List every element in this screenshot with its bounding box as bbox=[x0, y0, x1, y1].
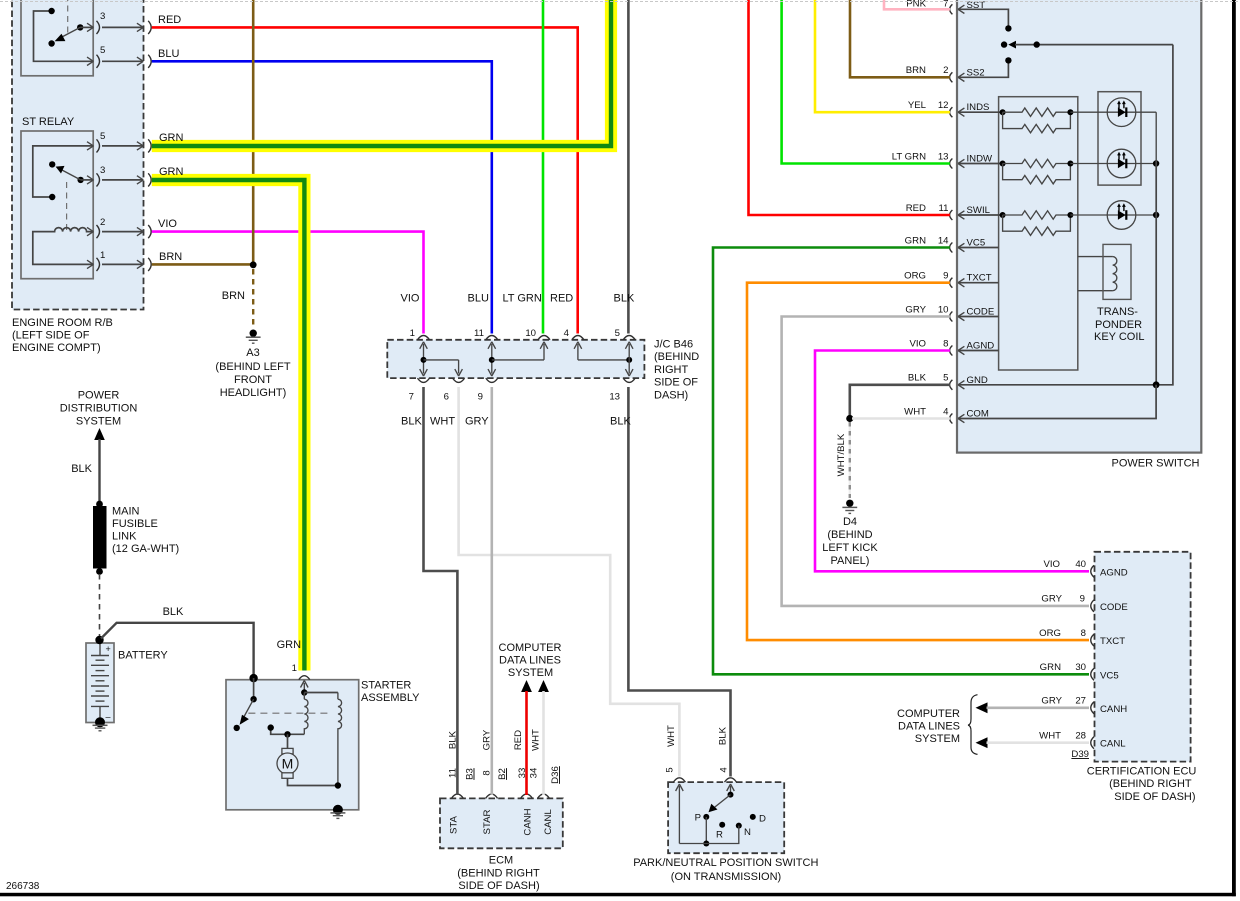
wire WHT/BLK dashed to ground D4 bbox=[849, 422, 851, 498]
pin AGND bbox=[950, 346, 953, 356]
svg-text:(12 GA-WHT): (12 GA-WHT) bbox=[112, 543, 179, 555]
wire GRY CANH bbox=[987, 706, 1090, 709]
park/neutral position switch dashed box bbox=[668, 782, 784, 853]
svg-text:GRN: GRN bbox=[905, 235, 926, 246]
svg-text:POWER: POWER bbox=[78, 389, 120, 401]
svg-text:3: 3 bbox=[100, 11, 105, 22]
svg-text:4: 4 bbox=[564, 328, 570, 339]
wire WHT COM bbox=[852, 417, 950, 420]
svg-text:BLK: BLK bbox=[614, 293, 635, 305]
ST relay pin 3 wire bbox=[81, 179, 94, 181]
COM internal lead bbox=[958, 385, 1156, 419]
svg-text:ORG: ORG bbox=[904, 271, 926, 282]
svg-text:GRY: GRY bbox=[465, 416, 489, 428]
svg-text:GRN: GRN bbox=[277, 639, 302, 651]
wire BLK J/C pin7 to ECM STA bbox=[424, 387, 458, 795]
ground starter bbox=[330, 813, 345, 819]
wire pin5 to R/B edge bbox=[102, 145, 143, 147]
J/C pin 11 connector bbox=[486, 336, 498, 340]
CODE internal lead bbox=[958, 316, 999, 318]
svg-text:BLK: BLK bbox=[908, 373, 927, 384]
svg-text:30: 30 bbox=[1075, 662, 1086, 673]
indicator LED box bbox=[1098, 92, 1141, 185]
wire node to motor bbox=[287, 734, 289, 748]
svg-text:(BEHIND: (BEHIND bbox=[654, 351, 699, 363]
svg-text:SIDE OF DASH): SIDE OF DASH) bbox=[1114, 791, 1195, 803]
ST relay coil bbox=[33, 228, 93, 265]
page bottom border bbox=[0, 893, 1236, 897]
wire to hold-in coil bbox=[304, 692, 338, 694]
ECM dashed box bbox=[440, 798, 563, 848]
node battery negative bbox=[95, 717, 105, 727]
ground A3 bbox=[250, 330, 257, 337]
node GND/COM junction bbox=[846, 415, 853, 422]
svg-text:PARK/NEUTRAL POSITION SWITCH: PARK/NEUTRAL POSITION SWITCH bbox=[633, 857, 818, 869]
svg-text:KEY COIL: KEY COIL bbox=[1094, 331, 1145, 343]
transponder key coil leads bbox=[1078, 256, 1113, 258]
svg-text:BATTERY: BATTERY bbox=[118, 650, 168, 662]
svg-text:STAR: STAR bbox=[482, 809, 493, 834]
LED SWIL bbox=[1070, 214, 1156, 216]
PNP contact P bbox=[703, 814, 709, 820]
svg-text:BLK: BLK bbox=[163, 606, 184, 618]
svg-text:9: 9 bbox=[478, 392, 483, 403]
svg-text:12: 12 bbox=[938, 100, 949, 111]
arrow to power distribution system bbox=[94, 428, 105, 440]
wire pin2 to R/B edge bbox=[102, 231, 143, 233]
svg-text:M: M bbox=[282, 756, 294, 772]
J/C pin 4 connector bbox=[572, 336, 584, 340]
pin VC5 bbox=[950, 243, 953, 253]
svg-text:(BEHIND LEFT: (BEHIND LEFT bbox=[215, 361, 290, 373]
svg-text:VIO: VIO bbox=[909, 338, 926, 349]
J/C pin 9 connector bbox=[486, 378, 498, 382]
svg-text:STARTER: STARTER bbox=[361, 680, 411, 692]
svg-text:FRONT: FRONT bbox=[234, 374, 272, 386]
svg-text:RED: RED bbox=[550, 293, 573, 305]
GND internal lead bbox=[958, 384, 1156, 386]
svg-text:CANH: CANH bbox=[1100, 704, 1127, 715]
svg-text:BLK: BLK bbox=[610, 416, 631, 428]
node battery positive bbox=[95, 636, 103, 644]
svg-text:P: P bbox=[695, 813, 701, 824]
starter mechanical link dashed bbox=[248, 712, 332, 714]
svg-text:1: 1 bbox=[292, 663, 297, 674]
ST relay mechanical link dashed bbox=[66, 182, 68, 230]
svg-text:AGND: AGND bbox=[1100, 567, 1128, 578]
wire BLK to J/C pin5 bbox=[627, 0, 630, 334]
svg-text:DATA LINES: DATA LINES bbox=[499, 655, 561, 667]
svg-text:ASSEMBLY: ASSEMBLY bbox=[361, 692, 420, 704]
wire pin5 to R/B edge bbox=[102, 60, 143, 62]
pull-in coil bbox=[304, 693, 308, 735]
svg-text:(BEHIND RIGHT: (BEHIND RIGHT bbox=[457, 867, 540, 879]
svg-text:GRN: GRN bbox=[159, 166, 184, 178]
svg-text:WHT: WHT bbox=[531, 729, 542, 751]
J/C pin 5 connector bbox=[623, 336, 635, 340]
wire GRN relay pin5 highlighted bbox=[152, 0, 611, 146]
arrow to computer data lines (CANL) bbox=[538, 680, 549, 692]
svg-text:5: 5 bbox=[943, 373, 948, 384]
svg-text:9: 9 bbox=[943, 271, 948, 282]
relay1 pin 3 connector bbox=[87, 23, 93, 31]
svg-text:D36: D36 bbox=[550, 766, 561, 784]
wire WHT J/C pin6 to PNP pin5 bbox=[459, 387, 680, 777]
svg-text:(LEFT SIDE OF: (LEFT SIDE OF bbox=[12, 330, 90, 342]
svg-text:10: 10 bbox=[525, 328, 536, 339]
wire GRN relay pin3 to starter highlighted bbox=[152, 180, 305, 671]
svg-text:TRANS-: TRANS- bbox=[1097, 306, 1138, 318]
svg-text:CANH: CANH bbox=[523, 808, 534, 835]
svg-text:40: 40 bbox=[1075, 559, 1086, 570]
svg-text:D: D bbox=[759, 814, 766, 825]
wire BLU relay pin5 to J/C pin11 bbox=[152, 61, 492, 333]
svg-text:13: 13 bbox=[938, 151, 949, 162]
svg-text:B2: B2 bbox=[497, 768, 508, 780]
transponder key coil bbox=[1113, 257, 1117, 291]
arrow to computer data lines (CANL) bbox=[976, 737, 988, 748]
svg-text:WHT/BLK: WHT/BLK bbox=[836, 433, 847, 476]
svg-text:VIO: VIO bbox=[158, 218, 177, 230]
INDW resistor pair bbox=[958, 163, 1003, 165]
svg-text:8: 8 bbox=[1081, 628, 1086, 639]
wire GRY J/C pin9 to ECM STAR bbox=[490, 387, 493, 795]
svg-text:LEFT KICK: LEFT KICK bbox=[822, 542, 878, 554]
svg-text:GRY: GRY bbox=[1041, 594, 1062, 605]
J/C bus 4-5-13 bbox=[577, 344, 579, 360]
cert pin 27 CANH connector bbox=[1091, 702, 1094, 714]
svg-text:1: 1 bbox=[100, 250, 105, 261]
svg-text:BRN: BRN bbox=[159, 251, 182, 263]
svg-text:MAIN: MAIN bbox=[112, 505, 140, 517]
ground battery bbox=[93, 725, 108, 731]
svg-text:WHT: WHT bbox=[904, 406, 926, 417]
svg-text:3: 3 bbox=[100, 165, 105, 176]
svg-text:ECM: ECM bbox=[489, 854, 513, 866]
svg-text:4: 4 bbox=[943, 406, 949, 417]
ST relay fixed contact bbox=[49, 161, 55, 167]
wire VIO AGND to certification ECU bbox=[815, 351, 1089, 572]
svg-text:GRY: GRY bbox=[905, 304, 926, 315]
J/C pin 6 connector bbox=[453, 378, 465, 382]
wire ORG TXCT to certification ECU bbox=[747, 283, 1089, 640]
node BRN junction bbox=[250, 261, 257, 268]
svg-text:A3: A3 bbox=[246, 347, 259, 359]
svg-text:ENGINE COMPT): ENGINE COMPT) bbox=[12, 342, 101, 354]
LED return vertical bbox=[1155, 160, 1157, 385]
pin SST bbox=[950, 4, 953, 14]
svg-text:DASH): DASH) bbox=[654, 390, 688, 402]
PNP contact R bbox=[719, 822, 725, 828]
svg-text:SYSTEM: SYSTEM bbox=[915, 733, 960, 745]
J/C pin 1 connector bbox=[418, 336, 430, 340]
wire pull-in coil bottom to motor node bbox=[271, 728, 305, 735]
svg-text:5: 5 bbox=[100, 45, 105, 56]
svg-text:14: 14 bbox=[938, 235, 949, 246]
node fusible link top bbox=[96, 501, 103, 508]
VC5 internal lead bbox=[958, 247, 999, 249]
wire LT GRN to J/C pin10 bbox=[542, 0, 545, 334]
svg-text:RED: RED bbox=[513, 730, 524, 750]
node solenoid top bbox=[301, 689, 307, 695]
svg-text:RIGHT: RIGHT bbox=[654, 364, 689, 376]
power switch box bbox=[957, 0, 1201, 453]
svg-text:POWER SWITCH: POWER SWITCH bbox=[1112, 457, 1200, 469]
ST relay box bbox=[21, 131, 93, 279]
svg-text:D39: D39 bbox=[1071, 749, 1089, 760]
node starter battery input bbox=[249, 674, 257, 682]
ground D4 bbox=[846, 500, 853, 507]
AGND internal lead bbox=[958, 350, 999, 352]
svg-text:STA: STA bbox=[449, 815, 460, 834]
svg-text:BLU: BLU bbox=[468, 293, 489, 305]
svg-text:BLK: BLK bbox=[71, 463, 92, 475]
ECM pin CANL connector bbox=[538, 794, 550, 798]
wire LT GRN to INDW bbox=[782, 0, 950, 164]
PNP bottom bus bbox=[679, 826, 738, 844]
wire pin3 to R/B edge bbox=[102, 179, 143, 181]
page right border bbox=[1232, 0, 1236, 896]
cert pin 40 AGND connector bbox=[1091, 565, 1094, 577]
svg-text:2: 2 bbox=[100, 217, 105, 228]
svg-text:PONDER: PONDER bbox=[1095, 319, 1142, 331]
pin CODE bbox=[950, 312, 953, 322]
ST relay switch arm bbox=[77, 177, 83, 183]
arrow to computer data lines (CANH) bbox=[521, 680, 532, 692]
svg-text:8: 8 bbox=[943, 338, 948, 349]
wire RED CANH bbox=[525, 691, 528, 795]
svg-text:4: 4 bbox=[719, 767, 730, 773]
svg-text:D4: D4 bbox=[843, 516, 857, 528]
svg-text:GRY: GRY bbox=[1041, 696, 1062, 707]
starter switch open contact bbox=[234, 725, 240, 731]
svg-text:–: – bbox=[106, 712, 111, 722]
svg-text:CODE: CODE bbox=[1100, 602, 1128, 613]
LED INDS bbox=[1070, 111, 1156, 113]
switch common return wire bbox=[1156, 45, 1173, 385]
wire BLK J/C pin13 to PNP pin4 bbox=[628, 387, 730, 777]
wire WHT CANL bbox=[987, 741, 1090, 744]
wire motor to ground node bbox=[288, 778, 338, 785]
battery internal plates bbox=[91, 643, 109, 722]
relay1 pin 3 wire bbox=[80, 26, 93, 28]
svg-text:VIO: VIO bbox=[1043, 559, 1060, 570]
ST relay pin 5 connector bbox=[87, 142, 93, 150]
wire RED to SWIL bbox=[749, 0, 951, 215]
svg-text:(BEHIND RIGHT: (BEHIND RIGHT bbox=[1109, 778, 1192, 790]
svg-text:RED: RED bbox=[906, 203, 926, 214]
SS2 contact wire bbox=[958, 64, 1008, 78]
svg-text:J/C B46: J/C B46 bbox=[654, 338, 693, 350]
svg-text:FUSIBLE: FUSIBLE bbox=[112, 518, 158, 530]
svg-text:LT GRN: LT GRN bbox=[503, 293, 542, 305]
wire BLK GND bbox=[850, 385, 950, 416]
hold-in coil bbox=[338, 693, 342, 786]
starter switch arm bbox=[243, 699, 254, 718]
PNP pin 4 arrow bbox=[730, 786, 732, 795]
dashed wire fusible link to battery bbox=[99, 574, 101, 637]
relay1 switch arm bbox=[77, 24, 83, 30]
PNP pin 4 connector bbox=[725, 778, 737, 782]
pin COM bbox=[950, 414, 953, 424]
svg-text:PANEL): PANEL) bbox=[831, 555, 870, 567]
svg-text:HEADLIGHT): HEADLIGHT) bbox=[220, 387, 287, 399]
svg-text:WHT: WHT bbox=[666, 725, 677, 747]
wire GRY CODE to certification ECU bbox=[782, 317, 1089, 606]
wire YEL to INDS bbox=[815, 0, 950, 112]
svg-text:9: 9 bbox=[1080, 594, 1085, 605]
brace bbox=[968, 695, 978, 755]
svg-text:11: 11 bbox=[474, 328, 484, 339]
ST relay pin 3 connector bbox=[87, 176, 93, 184]
ST relay pin 1 connector bbox=[87, 260, 93, 268]
starter switch contact feed bbox=[253, 678, 255, 699]
page top border bbox=[0, 1, 1240, 3]
svg-text:CANL: CANL bbox=[543, 809, 554, 835]
ST relay pin 2 connector bbox=[87, 227, 93, 235]
PNP switch arm bbox=[713, 795, 731, 809]
J/C pin 7 connector bbox=[418, 378, 430, 382]
relay (upper, cut off at top) bbox=[21, 0, 93, 76]
arrow to computer data lines (CANH) bbox=[976, 702, 988, 713]
wire VIO relay pin2 to J/C pin1 bbox=[152, 232, 424, 334]
relay1 internal feed wire bbox=[34, 11, 94, 61]
cert pin 30 VC5 connector bbox=[1091, 668, 1094, 680]
svg-text:266738: 266738 bbox=[6, 881, 40, 892]
INDS resistor pair bbox=[958, 111, 1003, 113]
wire BRN dashed to ground A3 bbox=[252, 269, 254, 329]
J/C B46 dashed box bbox=[387, 340, 644, 378]
svg-text:VC5: VC5 bbox=[1100, 670, 1119, 681]
svg-text:28: 28 bbox=[1075, 731, 1086, 742]
wire BLK battery to starter bbox=[101, 623, 254, 678]
relay1 pin 5 connector bbox=[87, 57, 93, 65]
ST relay common wire bbox=[33, 146, 93, 197]
motor M bbox=[282, 748, 293, 754]
svg-text:5: 5 bbox=[100, 131, 105, 142]
svg-text:27: 27 bbox=[1075, 696, 1086, 707]
LED INDW bbox=[1070, 163, 1156, 165]
svg-text:7: 7 bbox=[409, 392, 414, 403]
svg-text:ST RELAY: ST RELAY bbox=[22, 116, 75, 128]
svg-text:CANL: CANL bbox=[1100, 739, 1126, 750]
svg-text:WHT: WHT bbox=[430, 416, 455, 428]
engine room R/B dashed box bbox=[12, 0, 144, 310]
starter pin1 arrow bbox=[303, 683, 305, 693]
svg-text:TXCT: TXCT bbox=[1100, 636, 1125, 647]
svg-text:13: 13 bbox=[609, 392, 620, 403]
svg-text:GRN: GRN bbox=[1040, 662, 1061, 673]
pin INDW bbox=[950, 159, 953, 169]
wire GRN VC5 to certification ECU bbox=[713, 248, 1089, 675]
svg-text:SYSTEM: SYSTEM bbox=[76, 415, 121, 427]
svg-text:YEL: YEL bbox=[908, 100, 927, 111]
svg-text:LT GRN: LT GRN bbox=[892, 151, 926, 162]
svg-text:6: 6 bbox=[444, 392, 449, 403]
svg-text:COMPUTER: COMPUTER bbox=[499, 642, 562, 654]
svg-text:1: 1 bbox=[410, 328, 415, 339]
starter pin 1 connector bbox=[299, 676, 310, 680]
cert pin 9 CODE connector bbox=[1091, 600, 1094, 612]
svg-text:VIO: VIO bbox=[401, 293, 420, 305]
svg-text:ORG: ORG bbox=[1039, 628, 1061, 639]
main fusible link bbox=[93, 506, 107, 569]
SST contact wire bbox=[958, 9, 1008, 25]
node starter ground bbox=[333, 805, 343, 815]
starter assembly box bbox=[226, 680, 359, 810]
wire pin3 to R/B edge bbox=[102, 26, 143, 28]
PNP contact D bbox=[750, 814, 756, 820]
svg-text:BRN: BRN bbox=[222, 290, 245, 302]
J/C pin 10 connector bbox=[538, 336, 550, 340]
svg-text:5: 5 bbox=[615, 328, 620, 339]
J/C bus 11-9-10 bbox=[491, 344, 493, 374]
svg-text:RED: RED bbox=[158, 14, 181, 26]
wire BRN relay pin1 bbox=[152, 263, 253, 266]
svg-text:10: 10 bbox=[938, 304, 949, 315]
ECM pin CANH connector bbox=[521, 794, 533, 798]
wire WHT CANL bbox=[542, 691, 545, 795]
cert pin 8 TXCT connector bbox=[1091, 634, 1094, 646]
svg-text:DISTRIBUTION: DISTRIBUTION bbox=[60, 402, 138, 414]
svg-text:+: + bbox=[106, 644, 111, 654]
TXCT internal lead bbox=[958, 282, 999, 284]
PNP contact N bbox=[736, 823, 742, 829]
svg-text:(ON TRANSMISSION): (ON TRANSMISSION) bbox=[671, 871, 781, 883]
SWIL resistor pair bbox=[958, 214, 1003, 216]
svg-text:GRN: GRN bbox=[159, 132, 184, 144]
certification ECU dashed box bbox=[1095, 552, 1191, 762]
PNP P to common wire bbox=[705, 817, 707, 844]
transponder key coil box bbox=[1103, 244, 1131, 299]
ignition switch pole bbox=[1001, 41, 1007, 47]
svg-text:2: 2 bbox=[943, 65, 948, 76]
svg-text:BRN: BRN bbox=[906, 65, 926, 76]
svg-text:LINK: LINK bbox=[112, 530, 137, 542]
ECM pin STAR connector bbox=[486, 794, 498, 798]
ECM pin STA connector bbox=[451, 794, 463, 798]
svg-text:11: 11 bbox=[939, 203, 949, 214]
J/C pin 13 connector bbox=[623, 378, 635, 382]
cert pin 28 CANL connector bbox=[1091, 737, 1094, 749]
node fusible link bottom bbox=[96, 568, 103, 575]
wire RED relay pin3 to J/C pin4 bbox=[152, 27, 578, 333]
svg-text:B3: B3 bbox=[465, 768, 476, 780]
svg-text:BLK: BLK bbox=[401, 416, 422, 428]
wire BRN to SS2 bbox=[850, 0, 950, 77]
pin SWIL bbox=[950, 210, 953, 220]
svg-text:COMPUTER: COMPUTER bbox=[897, 708, 960, 720]
svg-text:SYSTEM: SYSTEM bbox=[508, 667, 553, 679]
pin TXCT bbox=[950, 278, 953, 288]
svg-text:5: 5 bbox=[665, 767, 676, 772]
svg-text:WHT: WHT bbox=[1039, 731, 1061, 742]
PNP pin 5 connector bbox=[673, 778, 685, 782]
battery bbox=[86, 643, 114, 723]
svg-text:N: N bbox=[744, 827, 751, 838]
svg-text:R: R bbox=[716, 830, 723, 841]
J/C bus 1-7-6 bbox=[423, 344, 425, 374]
PNP pin 5 arrow and leg bbox=[678, 786, 680, 844]
relay1 mechanical link dashed bbox=[67, 0, 69, 36]
wire BLK battery to fusible link bbox=[98, 439, 100, 504]
svg-text:34: 34 bbox=[529, 767, 540, 778]
pin SS2 bbox=[950, 72, 953, 82]
power switch inner unit box bbox=[999, 97, 1078, 370]
wire PNK to SST bbox=[884, 0, 950, 9]
svg-text:CERTIFICATION ECU: CERTIFICATION ECU bbox=[1087, 765, 1197, 777]
pin INDS bbox=[950, 107, 953, 117]
